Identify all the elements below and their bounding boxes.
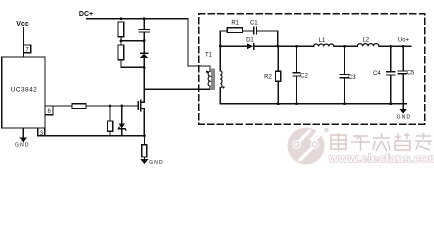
svg-text:C3: C3 <box>348 75 356 81</box>
pin 3 box <box>38 128 45 137</box>
svg-text:DC+: DC+ <box>79 11 93 18</box>
diode clamp DB <box>140 41 149 90</box>
svg-text:R1: R1 <box>231 20 239 26</box>
svg-text:Uo+: Uo+ <box>398 38 410 44</box>
diode D1 <box>246 38 254 50</box>
resistor to sense rail <box>107 106 112 136</box>
transformer T1 secondary <box>220 31 224 104</box>
wire output bottom rail <box>220 103 406 105</box>
wire secondary to D1 <box>220 45 247 47</box>
wire snubber cross upper <box>121 40 144 42</box>
svg-text:UC3842: UC3842 <box>11 87 37 94</box>
wire pin6 to gate <box>45 105 138 107</box>
wire D1 to junction <box>254 45 278 47</box>
node junction dot R2 bottom <box>277 102 280 105</box>
resistor R1 <box>227 20 242 32</box>
node junction dot CB mid <box>143 39 146 42</box>
capacitor snubber CB <box>139 19 149 41</box>
capacitor C3 <box>340 46 356 104</box>
svg-text:Vcc: Vcc <box>16 21 29 28</box>
capacitor C1 <box>250 20 258 33</box>
wire secondary top to R1 <box>220 30 227 32</box>
resistor source sense <box>142 136 147 159</box>
wire L1 to L2 <box>334 45 357 47</box>
node junction dot D1 anode <box>219 45 222 48</box>
ground source <box>141 159 164 166</box>
inductor L2 <box>357 38 379 47</box>
node junction dot C4 top <box>390 45 393 48</box>
svg-text:C5: C5 <box>407 71 415 77</box>
wire sense rail <box>45 135 145 137</box>
node junction dot C2 bottom <box>295 102 298 105</box>
node junction source-rail <box>143 134 146 137</box>
svg-text:GND: GND <box>397 115 412 121</box>
svg-text:L2: L2 <box>362 38 369 44</box>
resistor snubber RA1 <box>118 22 124 45</box>
op-amp U1 UC3842 IC box <box>2 57 45 128</box>
ground output <box>397 104 412 121</box>
svg-text:GND: GND <box>15 143 30 149</box>
pin 6 box <box>45 106 53 115</box>
wire Vcc to IC pin7 <box>22 28 24 57</box>
svg-text:C4: C4 <box>373 71 381 77</box>
svg-text:D1: D1 <box>246 38 254 44</box>
inductor L1 <box>314 38 334 46</box>
node junction dot snubber CB top <box>143 17 146 20</box>
node junction dot C3 bottom <box>343 102 346 105</box>
svg-text:GND: GND <box>149 160 164 166</box>
wire main to L1 <box>278 45 314 47</box>
node junction dot C5 top <box>402 45 405 48</box>
wire DC+ rail <box>87 19 211 66</box>
svg-text:C2: C2 <box>300 74 308 80</box>
node junction dot C4 bottom <box>389 102 392 105</box>
transistor Q1 MOSFET <box>138 89 144 136</box>
svg-text:L1: L1 <box>319 38 326 44</box>
node junction dot snubber return <box>276 45 279 48</box>
node junction dot snubber RA top <box>120 17 123 20</box>
capacitor C2 <box>293 46 308 104</box>
node junction dot C3 tap <box>343 45 346 48</box>
decorative watermark logo <box>288 128 329 165</box>
diagram dashed output box <box>199 14 425 124</box>
svg-text:T1: T1 <box>205 53 213 59</box>
wire R1 to C1 <box>243 30 254 32</box>
node junction dot C2 top <box>295 45 298 48</box>
node junction dot gate-Z <box>120 105 123 108</box>
node junction dot RA mid <box>120 39 123 42</box>
resistor gate series <box>72 104 86 109</box>
transformer T1 core <box>212 69 214 90</box>
node junction dot snubber bottom <box>143 66 146 69</box>
ground under IC <box>15 128 30 149</box>
pin 7 box <box>23 45 30 54</box>
wire L2 to output corner <box>379 45 411 47</box>
capacitor C4 <box>373 46 395 104</box>
zener diode gate protection <box>118 106 125 136</box>
svg-text:www.elecfans.com: www.elecfans.com <box>328 152 434 166</box>
resistor R2 <box>264 46 281 104</box>
wire drain rail to primary <box>144 88 210 90</box>
transformer T1 primary <box>206 66 210 89</box>
svg-text:C1: C1 <box>250 20 258 26</box>
decorative watermark CJK text <box>331 133 432 151</box>
capacitor C5 <box>398 46 415 104</box>
node junction dot gate-R <box>109 105 112 108</box>
resistor snubber RA2 <box>118 45 124 67</box>
wire C1 to corner <box>257 31 278 46</box>
wire snubber cross lower <box>121 66 144 68</box>
svg-text:R2: R2 <box>264 74 272 80</box>
